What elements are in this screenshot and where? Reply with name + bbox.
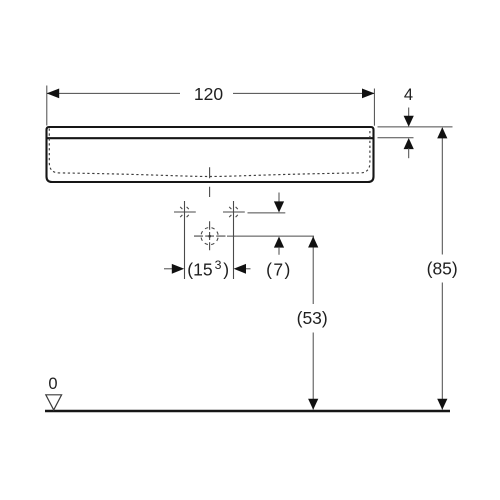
basin rim line <box>46 137 375 139</box>
dimension 53: down arrowhead <box>308 399 318 410</box>
tap hole marker right: diagonal dashes <box>229 207 238 217</box>
tap hole marker right: horizontal arm <box>223 211 245 213</box>
dimension 15-3: right tail <box>246 268 251 270</box>
dimension 85: vertical line upper segment <box>441 128 443 255</box>
svg-text:0: 0 <box>48 375 57 393</box>
dimension 4: upper extension line (basin top level) <box>378 126 453 128</box>
tap hole marker right: vertical arm and extension line down <box>233 201 235 279</box>
basin interior dashed line <box>49 129 370 177</box>
dimension 15-3: right arrowhead pointing left <box>234 264 246 274</box>
dimension 53: vertical line upper segment <box>312 237 314 305</box>
dimension 120: right extension line <box>373 89 375 126</box>
dimension 120: left extension line <box>46 86 48 126</box>
drain hole: center dot <box>209 235 211 237</box>
drain hole: dashed circle <box>201 228 218 245</box>
dimension 7: down arrowhead <box>274 201 284 212</box>
drain hole: horizontal crosshair <box>194 235 226 237</box>
basin outer outline <box>47 127 374 182</box>
datum zero triangle <box>46 395 62 410</box>
dimension 15-3: left arrowhead pointing right <box>172 264 184 274</box>
drain hole: vertical crosshair <box>209 221 211 250</box>
dimension 120: dimension line right segment <box>233 92 374 94</box>
tap hole marker left: horizontal arm <box>174 211 196 213</box>
svg-text:(53): (53) <box>297 308 328 328</box>
dimension 7: lower reference line (drain level) <box>227 235 314 237</box>
dimension 15-3: left tail <box>164 268 172 270</box>
dimension 7: down arrow shaft <box>278 193 280 204</box>
dimension 7: upper reference line (tap hole level) <box>248 212 286 214</box>
svg-text:(7): (7) <box>266 259 292 279</box>
dimension 85: vertical line lower segment <box>441 283 443 410</box>
dimension 7: up arrow shaft <box>278 247 280 255</box>
dimension 53: vertical line lower segment <box>312 333 314 410</box>
dimension 4: up arrowhead <box>404 138 414 149</box>
ground line <box>45 410 450 413</box>
svg-text:4: 4 <box>404 86 413 104</box>
svg-text:): ) <box>223 259 229 279</box>
dimension 7: up arrowhead <box>274 237 284 248</box>
dimension 4: down arrow shaft <box>408 108 410 118</box>
svg-text:(15: (15 <box>187 259 212 279</box>
dimension 120: dimension line left segment <box>47 92 180 94</box>
dimension 4: lower extension line (rim level) <box>378 137 414 139</box>
dimension 4: up arrow shaft <box>408 148 410 158</box>
tap hole marker left: vertical arm and extension line down <box>184 201 186 279</box>
dimension 120: right arrowhead <box>362 89 375 99</box>
svg-text:3: 3 <box>215 258 222 272</box>
dimension 120: left arrowhead <box>47 89 60 99</box>
vertical centerline of basin <box>209 167 211 197</box>
dimension 53: up arrowhead <box>308 236 318 247</box>
dimension 85: down arrowhead <box>437 399 447 410</box>
tap hole marker left: diagonal dashes <box>180 207 189 217</box>
svg-text:120: 120 <box>194 84 223 104</box>
svg-text:(85): (85) <box>427 258 458 278</box>
dimension 4: down arrowhead <box>404 116 414 127</box>
dimension 85: up arrowhead <box>437 127 447 138</box>
